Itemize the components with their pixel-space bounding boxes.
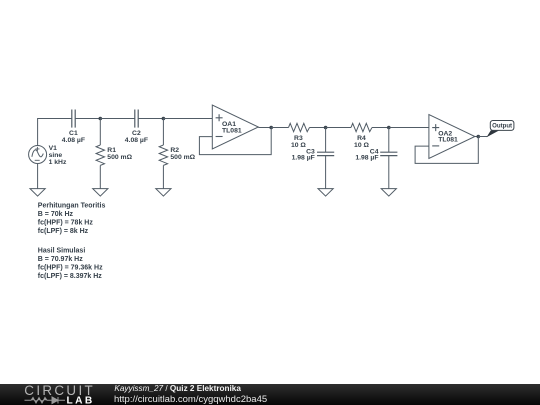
svg-text:Kayyissm_27 / Quiz 2 Elektroni: Kayyissm_27 / Quiz 2 Elektronika xyxy=(114,384,241,393)
CircuitLab logo wordmark xyxy=(24,383,95,405)
junction node E xyxy=(387,126,391,130)
capacitor C1 xyxy=(72,110,75,128)
svg-text:C2: C2 xyxy=(132,130,141,137)
wire C3 to ground xyxy=(325,156,327,189)
wire node D to R4 xyxy=(326,127,351,129)
wire C1 to node A xyxy=(75,118,100,120)
wire OA1 feedback loop xyxy=(199,128,271,155)
footer bar xyxy=(0,384,540,405)
ground for C3 xyxy=(318,189,333,197)
svg-text:fc(LPF) = 8k Hz: fc(LPF) = 8k Hz xyxy=(38,228,89,235)
wire R4 to node E xyxy=(372,127,389,129)
svg-text:TL081: TL081 xyxy=(438,137,458,144)
junction node B xyxy=(162,117,166,121)
svg-text:10 Ω: 10 Ω xyxy=(291,142,306,149)
svg-text:fc(HPF) = 78k Hz: fc(HPF) = 78k Hz xyxy=(38,219,94,226)
capacitor C3 xyxy=(317,152,334,155)
junction node F xyxy=(477,135,481,139)
wire OA2 output to node F xyxy=(475,136,478,138)
ground for V1 xyxy=(30,189,45,197)
wire node A down to R1 xyxy=(99,119,101,146)
svg-text:TL081: TL081 xyxy=(222,127,242,134)
capacitor C4 xyxy=(380,152,397,155)
wire node C to R3 xyxy=(271,127,288,129)
ground for R2 xyxy=(156,189,171,197)
annotation text theoretical results xyxy=(38,203,106,235)
junction node D xyxy=(324,126,328,130)
wire node F to output flag xyxy=(478,136,487,138)
resistor R1 xyxy=(96,145,104,165)
CircuitLab logo resistor-diode glyph xyxy=(25,397,66,404)
op-amp OA1 xyxy=(212,105,258,149)
wire C4 to ground xyxy=(388,156,390,189)
resistor R2 xyxy=(159,145,167,165)
wire OA1 output to node C xyxy=(258,127,271,129)
ground for C4 xyxy=(381,189,396,197)
svg-text:V1: V1 xyxy=(49,145,58,152)
wire OA2 feedback loop xyxy=(415,137,478,164)
svg-text:fc(LPF) = 8.397k Hz: fc(LPF) = 8.397k Hz xyxy=(38,273,102,280)
annotation text simulation results xyxy=(38,248,103,280)
wire C2 to node B xyxy=(138,118,163,120)
svg-text:4.08 µF: 4.08 µF xyxy=(62,137,85,144)
wire V1 bottom to ground xyxy=(37,164,39,189)
junction node A xyxy=(99,117,103,121)
svg-text:B = 70.97k Hz: B = 70.97k Hz xyxy=(38,256,83,263)
ground for R1 xyxy=(93,189,108,197)
svg-text:10 Ω: 10 Ω xyxy=(354,142,369,149)
voltage source V1 xyxy=(29,146,47,164)
svg-text:4.08 µF: 4.08 µF xyxy=(125,137,148,144)
resistor R3 xyxy=(289,123,310,131)
output flag pointer xyxy=(487,130,500,137)
svg-text:500 mΩ: 500 mΩ xyxy=(170,154,195,161)
svg-text:sine: sine xyxy=(49,152,63,159)
svg-text:Hasil Simulasi: Hasil Simulasi xyxy=(38,248,86,255)
wire R1 to ground xyxy=(99,165,101,188)
svg-text:fc(HPF) = 79.36k Hz: fc(HPF) = 79.36k Hz xyxy=(38,264,103,271)
svg-text:C1: C1 xyxy=(69,130,78,137)
wire R2 to ground xyxy=(162,165,164,188)
output flag box xyxy=(490,121,514,131)
wire node B down to R2 xyxy=(162,119,164,146)
svg-text:http://circuitlab.com/cygqwhdc: http://circuitlab.com/cygqwhdc2ba45 xyxy=(114,394,267,405)
wire node B to OA1 noninverting input xyxy=(163,118,212,120)
svg-text:1.98 µF: 1.98 µF xyxy=(292,155,315,162)
junction node C xyxy=(269,126,273,130)
svg-text:LAB: LAB xyxy=(67,396,95,405)
svg-text:500 mΩ: 500 mΩ xyxy=(107,154,132,161)
op-amp OA2 xyxy=(429,115,475,159)
resistor R4 xyxy=(351,123,372,131)
wire R3 to node D xyxy=(310,127,326,129)
wire node E down to C4 xyxy=(388,128,390,153)
wire node E to OA2 noninverting input xyxy=(389,127,429,129)
svg-text:B = 70k Hz: B = 70k Hz xyxy=(38,211,74,218)
wire top rail V1 to C1 xyxy=(38,119,72,146)
svg-text:1 kHz: 1 kHz xyxy=(49,159,67,166)
svg-text:Output: Output xyxy=(492,123,512,130)
wire node D down to C3 xyxy=(325,128,327,153)
capacitor C2 xyxy=(135,110,138,128)
wire node A to C2 xyxy=(100,118,134,120)
svg-text:Perhitungan Teoritis: Perhitungan Teoritis xyxy=(38,203,106,210)
svg-text:1.98 µF: 1.98 µF xyxy=(355,155,378,162)
